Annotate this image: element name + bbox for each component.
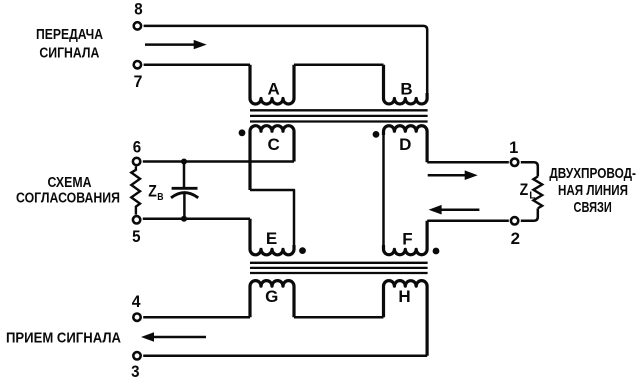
wire terminal 7 to winding A xyxy=(144,63,250,66)
terminal 5 xyxy=(133,216,140,223)
svg-text:ПРИЕМ СИГНАЛА: ПРИЕМ СИГНАЛА xyxy=(6,330,121,347)
line in arrow xyxy=(441,208,479,211)
terminal 3 xyxy=(133,352,140,359)
terminal 1 xyxy=(511,159,518,166)
receive arrow xyxy=(153,336,206,339)
junction node bottom of balance network xyxy=(181,216,187,222)
svg-text:3: 3 xyxy=(131,363,139,381)
winding D xyxy=(384,126,428,163)
wire winding D to terminal 1 xyxy=(427,161,509,164)
transformer core bottom xyxy=(250,263,428,273)
winding H xyxy=(384,281,428,356)
svg-text:B: B xyxy=(400,79,412,98)
transformer core top xyxy=(250,110,428,121)
svg-text:5: 5 xyxy=(132,228,140,246)
label matching network: СХЕМА СОГЛАСОВАНИЯ xyxy=(16,175,120,207)
load resistor ZL xyxy=(533,177,542,209)
svg-text:СВЯЗИ: СВЯЗИ xyxy=(574,199,612,216)
capacitor curved plate xyxy=(171,193,198,198)
label two-wire line: ДВУХПРОВОДНАЯ ЛИНИЯ СВЯЗИ xyxy=(549,165,636,216)
wire winding C to winding E xyxy=(250,190,294,249)
svg-text:СИГНАЛА: СИГНАЛА xyxy=(39,46,99,62)
svg-text:H: H xyxy=(398,287,410,306)
svg-text:L: L xyxy=(529,191,536,202)
svg-text:4: 4 xyxy=(132,293,142,311)
svg-text:ПЕРЕДАЧА: ПЕРЕДАЧА xyxy=(36,27,103,43)
transmit arrow xyxy=(145,43,196,46)
svg-text:E: E xyxy=(266,229,277,248)
winding F xyxy=(384,221,428,255)
svg-text:НАЯ ЛИНИЯ: НАЯ ЛИНИЯ xyxy=(558,182,628,199)
svg-text:D: D xyxy=(399,135,411,154)
svg-text:A: A xyxy=(268,79,280,98)
label transmit: ПЕРЕДАЧА СИГНАЛА xyxy=(36,27,103,62)
terminal 7 xyxy=(134,61,141,68)
wire winding A to winding B xyxy=(294,63,384,66)
line out arrow xyxy=(428,174,466,177)
terminal 2 xyxy=(511,217,518,224)
polarity dot winding F xyxy=(433,248,440,255)
winding E xyxy=(250,219,294,255)
polarity dot winding E xyxy=(299,247,306,254)
svg-text:8: 8 xyxy=(134,1,142,19)
svg-text:СОГЛАСОВАНИЯ: СОГЛАСОВАНИЯ xyxy=(16,191,120,207)
svg-text:F: F xyxy=(402,230,412,249)
svg-text:G: G xyxy=(265,287,278,306)
terminal 6 xyxy=(133,158,140,165)
wire winding D to winding F xyxy=(382,131,385,249)
junction node top of balance network xyxy=(181,159,187,165)
wire winding G to winding H xyxy=(294,316,384,319)
wire terminal 4 to winding G xyxy=(143,316,250,319)
winding A xyxy=(250,65,294,104)
svg-text:ДВУХПРОВОД-: ДВУХПРОВОД- xyxy=(549,165,636,182)
wire winding F to terminal 2 xyxy=(427,220,509,223)
svg-text:C: C xyxy=(268,135,280,154)
winding G xyxy=(250,281,294,318)
wire terminal 5 to winding E xyxy=(143,218,250,221)
svg-text:7: 7 xyxy=(134,73,143,91)
winding C xyxy=(250,126,294,190)
svg-text:Z: Z xyxy=(520,181,529,199)
svg-text:6: 6 xyxy=(133,138,141,156)
svg-text:Z: Z xyxy=(148,182,157,200)
wire load ZL to terminal 2 xyxy=(521,208,538,220)
svg-text:В: В xyxy=(157,192,164,203)
wire terminal 8 to winding B right lead xyxy=(144,26,428,99)
wire winding H to terminal 3 xyxy=(143,355,427,358)
svg-text:2: 2 xyxy=(511,230,520,248)
capacitor lead top xyxy=(183,162,186,189)
polarity dot winding D xyxy=(373,131,380,138)
capacitor lead bottom xyxy=(183,194,186,219)
terminal 8 xyxy=(134,22,141,29)
wire terminal 6 to winding C xyxy=(143,160,294,163)
wire terminal 1 to load ZL xyxy=(521,162,538,176)
svg-text:СХЕМА: СХЕМА xyxy=(48,175,92,191)
resistor ZB xyxy=(131,166,140,214)
capacitor top plate xyxy=(172,187,198,190)
polarity dot winding C xyxy=(239,129,246,136)
svg-text:1: 1 xyxy=(509,139,518,157)
winding B xyxy=(384,65,428,104)
terminal 4 xyxy=(133,314,140,321)
